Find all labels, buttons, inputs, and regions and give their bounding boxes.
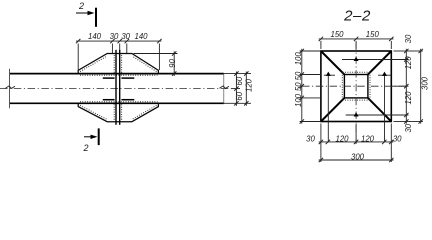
svg-text:120: 120: [404, 56, 413, 70]
svg-text:50: 50: [294, 71, 303, 80]
backing bar top-left: [103, 77, 115, 79]
backing bar bottom-right: [121, 99, 134, 101]
section mark top: arrow: [76, 8, 96, 27]
top gusset trapezoid: [78, 54, 158, 74]
bottom overall dimension 300: [319, 158, 394, 162]
weld dots under top flange: [80, 74, 158, 76]
break squiggle left: [6, 86, 16, 89]
svg-text:300: 300: [351, 152, 365, 161]
svg-text:30: 30: [404, 34, 413, 43]
svg-text:30: 30: [404, 123, 413, 132]
joint plate line right: [119, 50, 121, 125]
section mark bottom: arrow: [84, 128, 99, 145]
base plate outer square: [321, 51, 391, 122]
svg-text:140: 140: [88, 32, 102, 41]
top dimension line 150+150: [319, 37, 394, 49]
weld dots left of joint, top: [113, 55, 115, 73]
pyramid top inner square: [344, 75, 368, 98]
svg-text:2–2: 2–2: [343, 7, 371, 24]
pyramid diagonal bottom-left: [321, 98, 345, 122]
top dimension line: [76, 39, 162, 70]
weld dots along bottom-left slant: [80, 105, 107, 119]
svg-text:150: 150: [366, 30, 380, 39]
weld dots right of joint, bottom: [121, 104, 123, 120]
svg-text:120: 120: [404, 91, 413, 105]
svg-text:150: 150: [330, 30, 344, 39]
weld dots above bottom flange: [80, 101, 158, 103]
dimension 90 (gusset height): [134, 51, 178, 76]
svg-text:100: 100: [294, 52, 303, 66]
break squiggle right: [220, 86, 230, 89]
horizontal centerline of section: [302, 85, 407, 87]
svg-text:100: 100: [294, 93, 303, 107]
svg-text:60: 60: [235, 91, 244, 100]
right end dimensions 60/60/120: [224, 71, 251, 105]
svg-text:2: 2: [82, 143, 88, 153]
weld dots left of joint, bottom: [113, 104, 115, 120]
backing bar top-right: [121, 77, 134, 79]
right inner dimension line 30/120/120/30: [391, 49, 408, 124]
weld dots along top-left slant: [80, 56, 107, 71]
vertical centerline of section: [355, 43, 357, 143]
svg-text:300: 300: [420, 76, 429, 90]
stud top: [342, 57, 407, 61]
stud left: [324, 72, 335, 142]
weld dots around inner square: [343, 71, 370, 73]
svg-text:30: 30: [110, 32, 119, 41]
stud right: [378, 72, 391, 142]
beam top flange line: [10, 73, 224, 75]
svg-text:120: 120: [361, 134, 375, 143]
weld dots along top-right slant: [132, 56, 156, 71]
svg-text:90: 90: [168, 59, 177, 68]
weld dots along bottom-right slant: [132, 105, 157, 119]
pyramid diagonal top-left: [321, 51, 345, 75]
pyramid diagonal top-right: [368, 51, 391, 75]
beam right end extension line: [223, 74, 225, 104]
svg-text:30: 30: [393, 134, 402, 143]
stud bottom: [346, 112, 407, 116]
beam centerline (dash-dot): [0, 88, 231, 90]
weld dots right of joint, top: [121, 55, 123, 73]
svg-text:30: 30: [121, 32, 130, 41]
backing bar bottom-left: [103, 99, 115, 101]
bottom gusset trapezoid: [78, 103, 158, 121]
beam left end line: [9, 69, 11, 108]
svg-text:50: 50: [294, 82, 303, 91]
svg-text:2: 2: [78, 1, 84, 11]
svg-text:30: 30: [306, 134, 315, 143]
bottom dimension line 30/120/120/30: [319, 124, 394, 163]
svg-text:120: 120: [335, 134, 349, 143]
joint plate line left: [115, 50, 117, 125]
left dimension line 100/50/50/100: [300, 49, 321, 124]
right outer dimension line 300: [409, 49, 423, 124]
pyramid diagonal bottom-right: [368, 98, 391, 122]
svg-text:140: 140: [134, 32, 148, 41]
svg-text:120: 120: [245, 78, 254, 92]
svg-text:60: 60: [235, 76, 244, 85]
beam bottom flange line: [10, 102, 224, 104]
